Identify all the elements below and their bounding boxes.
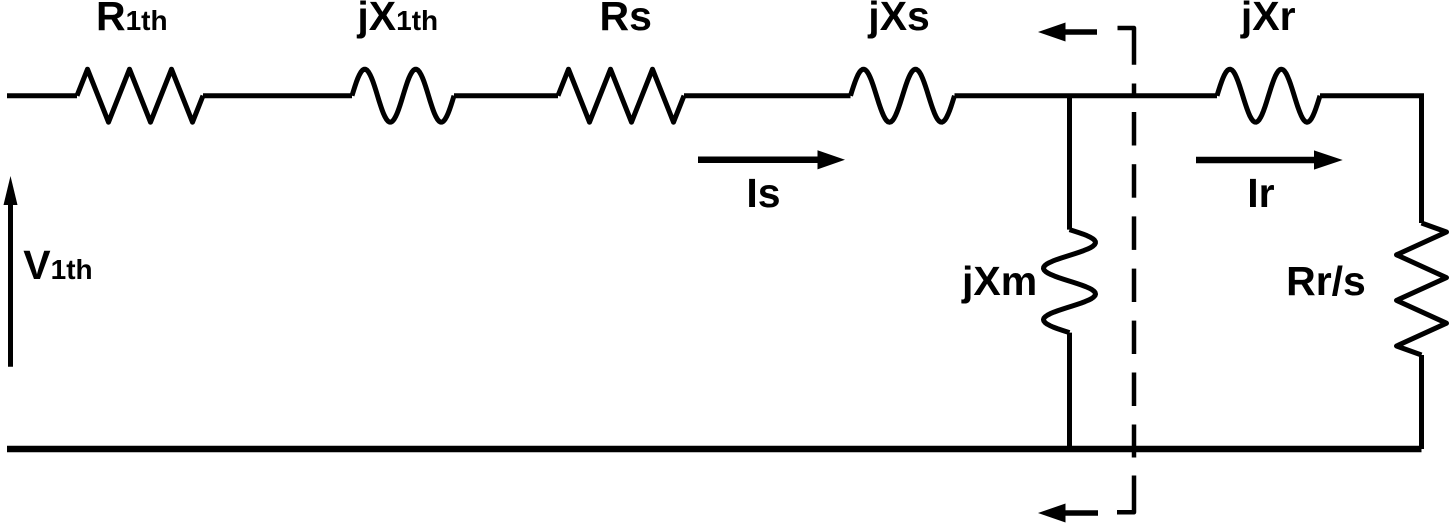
svg-text:V1th: V1th	[23, 242, 92, 288]
resistor Rs	[558, 69, 684, 122]
wire jXm branch from top rail node	[1067, 96, 1072, 230]
inductor jX1th	[352, 69, 454, 122]
dashed air-gap boundary: top corner dash	[1118, 28, 1135, 65]
wire jX1th to Rs	[454, 93, 558, 98]
inductor jXr	[1217, 69, 1320, 122]
svg-text:jXm: jXm	[961, 258, 1037, 304]
dashed air-gap boundary: dash 8	[1132, 373, 1137, 407]
inductor jXm	[1044, 230, 1096, 333]
svg-text:Rr/s: Rr/s	[1286, 258, 1366, 304]
svg-text:Is: Is	[746, 170, 780, 216]
dashed air-gap boundary: dash 6	[1132, 269, 1137, 302]
svg-text:jXr: jXr	[1240, 0, 1296, 39]
dashed air-gap boundary: dash 5	[1132, 216, 1137, 250]
resistor R1th	[77, 69, 203, 122]
arrow Is current (points right)	[698, 150, 845, 169]
arrow bottom air-gap (points left)	[1038, 504, 1098, 523]
wire jXr to top-right corner down to Rr/s	[1320, 96, 1422, 223]
svg-text:jX1th: jX1th	[356, 0, 438, 39]
wire top-left segment	[7, 93, 77, 98]
dashed air-gap boundary: bottom corner dash	[1117, 476, 1134, 513]
dashed air-gap boundary: dash 3	[1132, 112, 1137, 146]
wire R1th to jX1th	[203, 93, 352, 98]
wire jXm to bottom rail	[1067, 333, 1072, 449]
wire jXs to jXr through jXm node and air-gap boundary	[955, 93, 1218, 98]
svg-text:R1th: R1th	[96, 0, 168, 39]
arrow V1th voltage (points up)	[4, 176, 18, 367]
dashed air-gap boundary: dash 4	[1132, 164, 1137, 198]
dashed air-gap boundary: dash 7	[1132, 321, 1137, 354]
arrow Ir current (points right)	[1196, 150, 1343, 169]
arrow top air-gap (points left)	[1038, 23, 1097, 42]
svg-text:jXs: jXs	[867, 0, 930, 39]
wire Rs to jXs	[684, 93, 851, 98]
inductor jXs	[851, 69, 955, 122]
dashed air-gap boundary: dash 2	[1132, 84, 1137, 98]
wire Rr/s to bottom rail	[1419, 355, 1424, 449]
svg-text:Ir: Ir	[1247, 170, 1274, 216]
dashed air-gap boundary: dash 9 crossing bottom rail	[1132, 425, 1137, 458]
svg-text:Rs: Rs	[600, 0, 652, 39]
resistor Rr/s	[1397, 223, 1447, 355]
wire bottom rail	[7, 446, 1422, 453]
